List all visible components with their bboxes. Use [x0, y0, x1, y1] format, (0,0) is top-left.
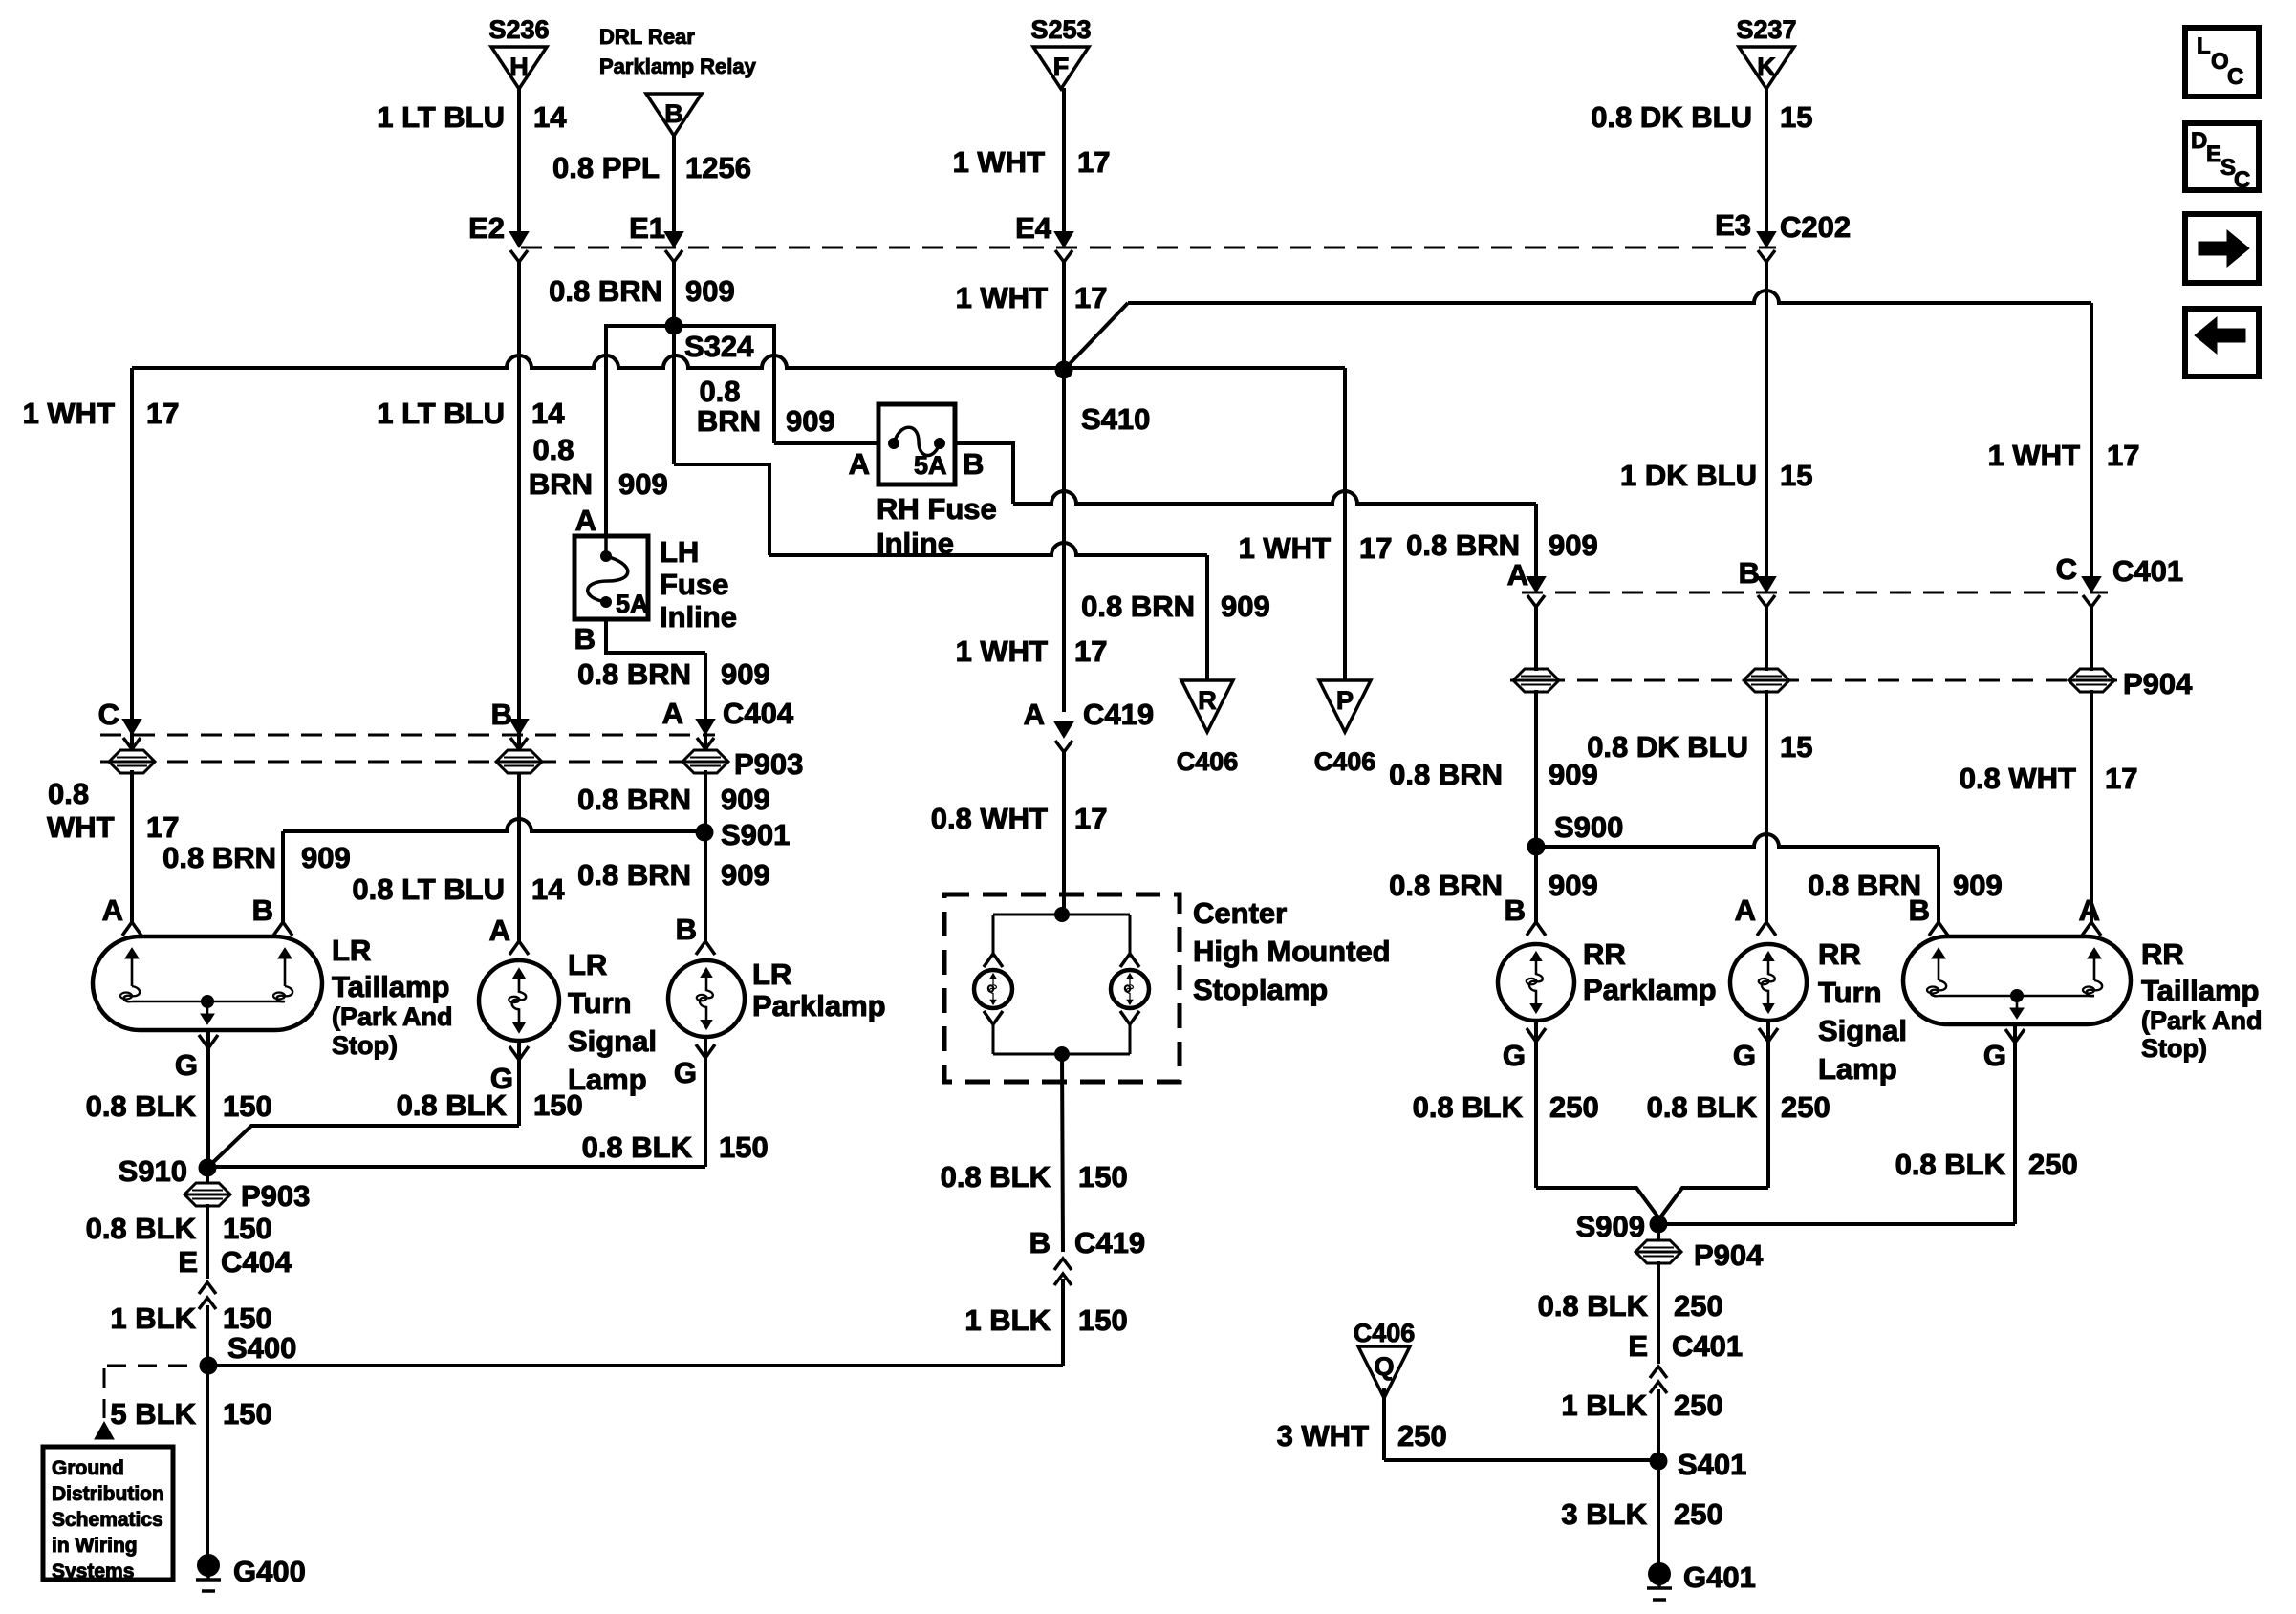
svg-text:R: R: [1198, 686, 1217, 715]
svg-text:0.8 BLK: 0.8 BLK: [86, 1212, 197, 1245]
svg-text:RH Fuse: RH Fuse: [877, 492, 997, 526]
svg-text:S910: S910: [119, 1154, 187, 1188]
svg-text:5 BLK: 5 BLK: [110, 1397, 196, 1431]
svg-text:RR: RR: [1818, 937, 1861, 971]
svg-text:0.8 BRN: 0.8 BRN: [1081, 590, 1195, 623]
svg-text:909: 909: [1953, 869, 2003, 902]
svg-text:S900: S900: [1554, 810, 1623, 844]
svg-text:1256: 1256: [685, 151, 751, 184]
svg-text:909: 909: [721, 783, 770, 816]
svg-text:C404: C404: [723, 697, 794, 730]
svg-text:C: C: [2227, 64, 2243, 90]
svg-text:P: P: [1336, 686, 1354, 715]
svg-text:E: E: [2206, 141, 2221, 167]
svg-text:0.8: 0.8: [48, 777, 89, 810]
svg-text:C202: C202: [1780, 210, 1851, 244]
svg-text:B: B: [574, 622, 596, 656]
svg-text:A: A: [1507, 558, 1528, 592]
svg-text:0.8 BLK: 0.8 BLK: [941, 1160, 1051, 1194]
svg-text:High Mounted: High Mounted: [1193, 935, 1391, 968]
svg-text:0.8: 0.8: [532, 433, 574, 466]
svg-text:P903: P903: [734, 747, 803, 781]
svg-text:1 WHT: 1 WHT: [956, 281, 1049, 314]
svg-text:E: E: [1628, 1329, 1648, 1363]
svg-text:Parklamp Relay: Parklamp Relay: [599, 54, 757, 78]
svg-text:C: C: [2056, 552, 2077, 586]
svg-text:P903: P903: [241, 1179, 310, 1213]
svg-text:150: 150: [533, 1088, 583, 1122]
svg-text:150: 150: [223, 1212, 272, 1245]
svg-text:A: A: [489, 914, 510, 947]
svg-text:Lamp: Lamp: [1818, 1052, 1897, 1086]
svg-text:15: 15: [1780, 730, 1812, 764]
svg-text:Turn: Turn: [568, 986, 632, 1020]
svg-text:Center: Center: [1193, 896, 1287, 930]
svg-text:Signal: Signal: [1818, 1014, 1907, 1047]
svg-text:G400: G400: [233, 1555, 306, 1588]
svg-text:F: F: [1053, 53, 1070, 81]
svg-text:S236: S236: [488, 15, 549, 44]
svg-text:O: O: [2211, 49, 2229, 75]
svg-text:C406: C406: [1314, 747, 1376, 776]
svg-text:C: C: [98, 698, 119, 731]
svg-text:G: G: [1503, 1039, 1526, 1072]
svg-text:Parklamp: Parklamp: [1583, 973, 1717, 1006]
svg-text:P904: P904: [2123, 667, 2193, 700]
svg-text:E2: E2: [468, 211, 505, 245]
svg-text:0.8 BRN: 0.8 BRN: [1808, 869, 1921, 902]
svg-text:1 LT BLU: 1 LT BLU: [377, 397, 505, 430]
svg-text:S400: S400: [227, 1331, 296, 1365]
svg-text:0.8 BLK: 0.8 BLK: [397, 1088, 508, 1122]
svg-text:0.8 BRN: 0.8 BRN: [162, 841, 276, 874]
svg-text:S401: S401: [1678, 1448, 1746, 1481]
svg-text:B: B: [491, 698, 512, 731]
svg-text:C406: C406: [1177, 747, 1239, 776]
svg-text:LH: LH: [660, 535, 699, 569]
svg-text:E3: E3: [1715, 208, 1751, 242]
svg-text:A: A: [2079, 893, 2100, 927]
svg-text:0.8 LT BLU: 0.8 LT BLU: [352, 872, 505, 906]
svg-text:S901: S901: [721, 818, 790, 851]
svg-text:Stop): Stop): [332, 1031, 398, 1060]
svg-text:0.8 BRN: 0.8 BRN: [577, 783, 691, 816]
svg-text:0.8 BRN: 0.8 BRN: [577, 657, 691, 691]
svg-text:(Park And: (Park And: [332, 1002, 453, 1031]
svg-text:Schematics: Schematics: [52, 1509, 163, 1531]
svg-text:150: 150: [1078, 1303, 1128, 1337]
svg-text:S237: S237: [1736, 15, 1796, 44]
svg-text:S909: S909: [1576, 1210, 1645, 1243]
svg-text:14: 14: [531, 397, 565, 430]
svg-text:H: H: [509, 53, 529, 81]
svg-text:S410: S410: [1081, 402, 1150, 436]
svg-text:250: 250: [1781, 1090, 1830, 1124]
svg-text:Inline: Inline: [660, 600, 737, 634]
svg-text:Signal: Signal: [568, 1024, 657, 1058]
svg-text:250: 250: [2028, 1148, 2078, 1181]
svg-text:0.8 WHT: 0.8 WHT: [931, 802, 1048, 835]
svg-text:Taillamp: Taillamp: [2141, 974, 2259, 1007]
svg-text:A: A: [849, 447, 870, 481]
svg-text:1 WHT: 1 WHT: [956, 635, 1049, 668]
svg-text:909: 909: [1549, 869, 1598, 902]
svg-text:17: 17: [2107, 439, 2139, 472]
svg-text:L: L: [2197, 33, 2211, 59]
svg-text:LR: LR: [332, 934, 371, 967]
svg-text:1 LT BLU: 1 LT BLU: [377, 100, 505, 134]
svg-text:0.8 BLK: 0.8 BLK: [1413, 1090, 1524, 1124]
svg-text:Fuse: Fuse: [660, 568, 728, 601]
svg-text:0.8 BLK: 0.8 BLK: [1538, 1289, 1649, 1323]
svg-text:150: 150: [719, 1130, 769, 1164]
svg-text:0.8 BLK: 0.8 BLK: [86, 1089, 197, 1123]
svg-text:K: K: [1757, 53, 1776, 81]
svg-text:A: A: [662, 697, 683, 730]
svg-text:G: G: [1733, 1039, 1756, 1072]
svg-text:C404: C404: [221, 1245, 292, 1279]
svg-text:150: 150: [223, 1302, 272, 1335]
svg-text:0.8 PPL: 0.8 PPL: [552, 151, 660, 184]
svg-text:14: 14: [531, 872, 565, 906]
svg-text:Turn: Turn: [1818, 976, 1882, 1009]
svg-text:1 BLK: 1 BLK: [964, 1303, 1051, 1337]
svg-text:B: B: [1739, 556, 1760, 590]
svg-text:B: B: [252, 893, 273, 927]
svg-text:S253: S253: [1030, 15, 1091, 44]
svg-text:15: 15: [1780, 459, 1812, 492]
svg-text:D: D: [2191, 128, 2207, 154]
svg-text:LR: LR: [568, 948, 607, 981]
svg-text:Stop): Stop): [2141, 1034, 2207, 1063]
svg-text:LR: LR: [752, 958, 791, 991]
svg-text:Systems: Systems: [52, 1560, 134, 1582]
svg-text:RR: RR: [1583, 937, 1626, 971]
svg-text:C401: C401: [2112, 554, 2183, 588]
svg-text:E4: E4: [1015, 211, 1052, 245]
svg-text:B: B: [1505, 893, 1526, 927]
svg-text:150: 150: [223, 1397, 272, 1431]
svg-text:17: 17: [1074, 635, 1107, 668]
svg-text:909: 909: [1221, 590, 1270, 623]
svg-text:B: B: [1909, 893, 1930, 927]
svg-text:1 WHT: 1 WHT: [953, 145, 1046, 179]
svg-text:B: B: [963, 447, 984, 481]
svg-text:A: A: [102, 893, 123, 927]
svg-text:Stoplamp: Stoplamp: [1193, 973, 1328, 1006]
svg-text:909: 909: [618, 467, 668, 501]
svg-text:Distribution: Distribution: [52, 1483, 164, 1505]
svg-text:5A: 5A: [914, 451, 947, 480]
svg-text:17: 17: [1359, 531, 1392, 565]
svg-text:250: 250: [1549, 1090, 1599, 1124]
svg-text:0.8 BLK: 0.8 BLK: [582, 1130, 693, 1164]
svg-text:E1: E1: [629, 211, 665, 245]
svg-text:0.8 BRN: 0.8 BRN: [577, 858, 691, 892]
svg-text:0.8 BLK: 0.8 BLK: [1647, 1090, 1758, 1124]
svg-text:17: 17: [1074, 802, 1107, 835]
svg-text:Parklamp: Parklamp: [752, 989, 886, 1022]
svg-text:A: A: [1735, 893, 1756, 927]
svg-text:DRL Rear: DRL Rear: [599, 25, 695, 49]
svg-text:17: 17: [1077, 145, 1110, 179]
svg-text:A: A: [575, 504, 596, 537]
svg-text:250: 250: [1674, 1497, 1723, 1531]
svg-text:WHT: WHT: [47, 810, 115, 844]
svg-text:3 BLK: 3 BLK: [1561, 1497, 1647, 1531]
svg-text:Inline: Inline: [877, 527, 954, 560]
svg-text:250: 250: [1674, 1388, 1723, 1422]
svg-text:17: 17: [1074, 281, 1107, 314]
svg-text:909: 909: [721, 657, 770, 691]
svg-text:1 BLK: 1 BLK: [110, 1302, 196, 1335]
svg-text:0.8 BRN: 0.8 BRN: [1406, 528, 1520, 562]
svg-text:0.8 WHT: 0.8 WHT: [1960, 762, 2076, 795]
svg-text:BRN: BRN: [697, 404, 761, 438]
svg-text:Q: Q: [1374, 1352, 1394, 1381]
svg-text:BRN: BRN: [529, 467, 593, 501]
svg-text:G: G: [175, 1048, 198, 1082]
svg-text:17: 17: [146, 397, 179, 430]
svg-text:1 WHT: 1 WHT: [1988, 439, 2081, 472]
svg-text:0.8: 0.8: [699, 375, 740, 408]
svg-text:P904: P904: [1694, 1238, 1764, 1272]
svg-text:0.8 DK BLU: 0.8 DK BLU: [1591, 100, 1752, 134]
svg-text:909: 909: [301, 841, 351, 874]
svg-text:17: 17: [146, 810, 179, 844]
svg-text:E: E: [178, 1245, 198, 1279]
svg-text:15: 15: [1780, 100, 1812, 134]
svg-text:C419: C419: [1083, 698, 1154, 731]
svg-text:909: 909: [786, 404, 835, 438]
svg-text:1 WHT: 1 WHT: [1239, 531, 1332, 565]
svg-text:909: 909: [685, 274, 735, 308]
svg-text:B: B: [676, 913, 697, 946]
svg-text:G: G: [674, 1056, 697, 1089]
svg-text:250: 250: [1674, 1289, 1723, 1323]
svg-text:150: 150: [223, 1089, 272, 1123]
svg-text:150: 150: [1078, 1160, 1128, 1194]
svg-text:250: 250: [1397, 1419, 1447, 1453]
svg-text:C: C: [2234, 167, 2250, 193]
svg-text:17: 17: [2105, 762, 2137, 795]
svg-text:G401: G401: [1683, 1560, 1756, 1594]
svg-text:(Park And: (Park And: [2141, 1006, 2263, 1035]
svg-text:Taillamp: Taillamp: [332, 970, 449, 1003]
svg-text:3 WHT: 3 WHT: [1277, 1419, 1370, 1453]
svg-text:A: A: [1024, 698, 1045, 731]
svg-text:1 BLK: 1 BLK: [1561, 1388, 1647, 1422]
svg-text:C401: C401: [1672, 1329, 1743, 1363]
svg-text:909: 909: [721, 858, 770, 892]
svg-text:1 WHT: 1 WHT: [23, 397, 116, 430]
svg-text:in Wiring: in Wiring: [52, 1535, 138, 1557]
svg-text:5A: 5A: [616, 590, 649, 618]
svg-text:B: B: [664, 99, 683, 128]
svg-text:909: 909: [1549, 528, 1598, 562]
svg-text:RR: RR: [2141, 937, 2184, 971]
svg-text:C419: C419: [1074, 1226, 1145, 1259]
svg-text:C406: C406: [1354, 1319, 1416, 1347]
svg-text:B: B: [1029, 1226, 1051, 1259]
svg-text:0.8 DK BLU: 0.8 DK BLU: [1587, 730, 1748, 764]
svg-text:S324: S324: [684, 330, 754, 363]
svg-text:Ground: Ground: [52, 1457, 124, 1479]
svg-text:0.8 BRN: 0.8 BRN: [549, 274, 662, 308]
svg-text:0.8 BRN: 0.8 BRN: [1389, 869, 1503, 902]
svg-text:G: G: [1983, 1039, 2006, 1072]
svg-text:0.8 BLK: 0.8 BLK: [1895, 1148, 2006, 1181]
svg-text:1 DK BLU: 1 DK BLU: [1620, 459, 1757, 492]
svg-text:14: 14: [533, 100, 567, 134]
svg-text:0.8 BRN: 0.8 BRN: [1389, 758, 1503, 791]
